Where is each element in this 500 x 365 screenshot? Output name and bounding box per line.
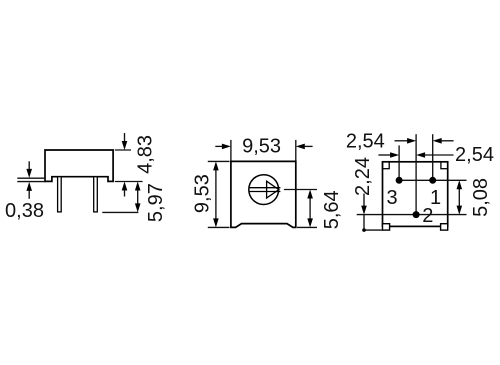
bottom view left foot xyxy=(383,224,390,230)
bottom view right foot xyxy=(441,224,448,230)
top 9,53 left arrow xyxy=(215,144,231,150)
pin 3 extension line xyxy=(398,145,400,180)
top 9,53 right arrow xyxy=(296,144,313,150)
pin 2 dot xyxy=(413,211,420,218)
top 9,53 left extension line xyxy=(230,140,232,161)
svg-text:5,64: 5,64 xyxy=(321,190,343,229)
dimension 5,64 dimension line with arrows xyxy=(307,190,313,228)
pin 1 dot xyxy=(429,177,436,184)
svg-text:0,38: 0,38 xyxy=(5,200,44,222)
dimension 4,83 seating plane extension line xyxy=(115,181,143,183)
svg-text:4,83: 4,83 xyxy=(134,135,156,174)
svg-text:9,53: 9,53 xyxy=(191,174,213,213)
svg-text:5,97: 5,97 xyxy=(145,183,167,222)
left 9,53 top extension line xyxy=(208,160,230,162)
dimension 4,83 bottom arrow xyxy=(122,182,128,197)
svg-text:2,54: 2,54 xyxy=(455,144,494,166)
top 9,53 right extension line xyxy=(295,140,297,161)
side view body xyxy=(45,150,113,181)
svg-text:2,54: 2,54 xyxy=(346,131,385,153)
dimension 2,24 arrow and tail xyxy=(361,194,367,232)
screw slot upper line xyxy=(249,187,280,189)
screw slot lower line xyxy=(249,191,280,193)
upper 2,54 right arrow xyxy=(433,138,454,144)
svg-text:5,08: 5,08 xyxy=(470,178,492,217)
top view body xyxy=(231,161,296,227)
side view lead strip bottom line xyxy=(17,181,45,183)
bottom view top-left corner notch xyxy=(383,162,390,169)
side view lead strip top line xyxy=(17,177,45,179)
dimension 5,97 dimension line with arrows xyxy=(135,182,141,213)
pin 1 extension line xyxy=(432,134,434,180)
dimension 5,08 dimension line with arrows xyxy=(457,180,463,214)
pin 2 row line xyxy=(357,214,467,216)
dimension 5,97 pin bottom extension line xyxy=(102,211,138,213)
lower 2,54 right arrow xyxy=(416,152,454,158)
top view adjustment screw circle xyxy=(249,175,279,205)
svg-text:9,53: 9,53 xyxy=(242,136,281,158)
bottom view body xyxy=(383,162,448,227)
pin 3 dot xyxy=(396,177,403,184)
svg-text:3: 3 xyxy=(386,187,397,209)
svg-text:2,24: 2,24 xyxy=(352,157,374,196)
side view left pin xyxy=(58,177,62,212)
dimension 0,38 upper arrow xyxy=(26,161,32,178)
dimension 5,64 bottom extension line xyxy=(297,226,317,228)
dimension 4,83 top arrow xyxy=(122,133,128,150)
left 9,53 dimension line with arrows xyxy=(213,161,219,227)
side view right pin xyxy=(94,177,98,212)
dimension 4,83 top extension line xyxy=(115,149,131,151)
svg-text:2: 2 xyxy=(422,205,433,227)
dimension 0,38 lower arrow xyxy=(26,182,32,199)
left 9,53 bottom extension line xyxy=(208,226,230,228)
bottom view top-right corner notch xyxy=(441,162,448,169)
slot center line extension xyxy=(284,189,317,191)
rotation direction triangle xyxy=(267,181,279,198)
pins 3-1 row line xyxy=(399,179,466,181)
feet bottom extension line xyxy=(364,229,384,231)
lower 2,54 left arrow xyxy=(378,152,399,158)
pin 2 extension line xyxy=(415,134,417,214)
upper 2,54 left arrow xyxy=(395,138,417,144)
